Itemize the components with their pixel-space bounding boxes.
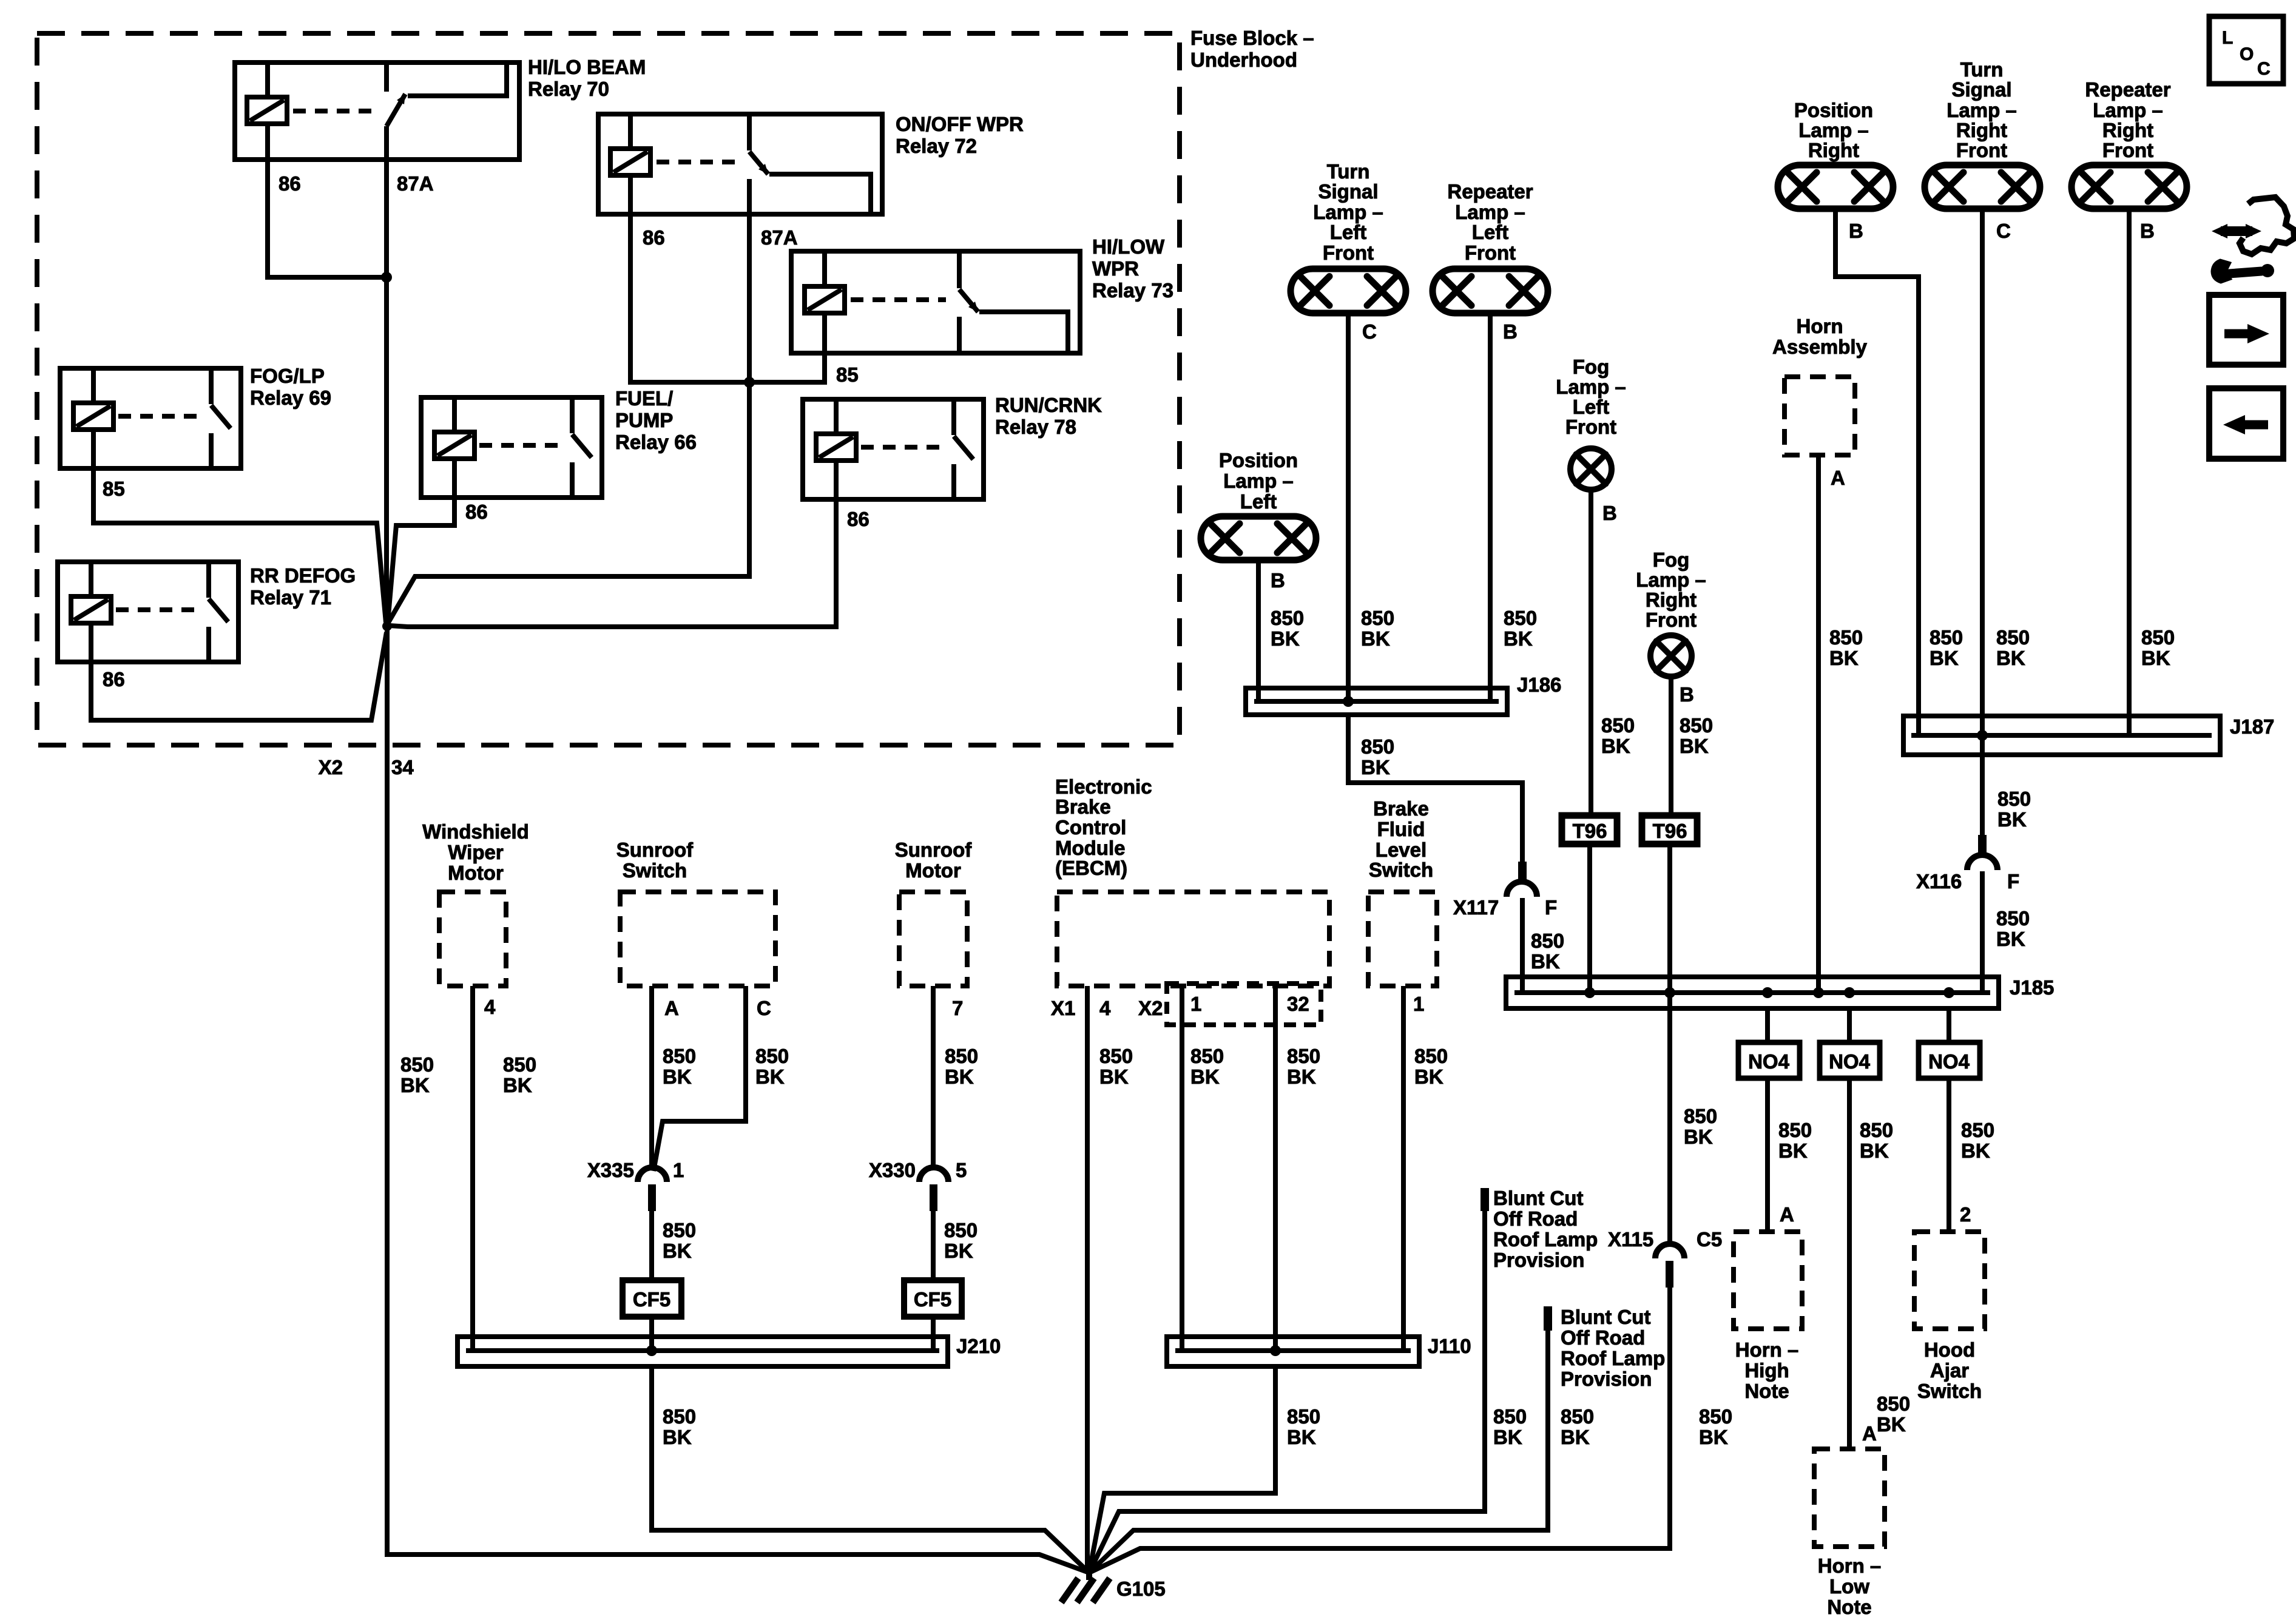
lamp symbol - turn signal lamp left front (1291, 269, 1406, 313)
X117 label (1453, 896, 1499, 919)
connector X117 (1507, 862, 1537, 897)
svg-text:850: 850 (663, 1219, 696, 1241)
svg-text:850: 850 (503, 1053, 536, 1076)
connector X335 (638, 1167, 667, 1211)
svg-text:850: 850 (400, 1053, 434, 1076)
svg-text:850: 850 (1190, 1045, 1224, 1067)
wire R69 pin85 right to X-splice (93, 468, 386, 623)
wire turn signal left C to J186 (1346, 313, 1351, 701)
left arrow navigation box (2209, 388, 2283, 459)
svg-text:Front: Front (1646, 609, 1697, 631)
svg-text:F: F (2007, 870, 2019, 893)
R70 pin 86 label (279, 172, 301, 195)
svg-text:850: 850 (1287, 1405, 1320, 1428)
svg-text:1: 1 (673, 1159, 684, 1181)
wire label 850 BK NO4 middle (1860, 1119, 1893, 1162)
R66 pin 86 label (465, 501, 488, 523)
wire label 850 BK position lamp right (1930, 626, 1963, 669)
right arrow navigation box (2209, 295, 2283, 365)
svg-text:Position: Position (1794, 99, 1873, 121)
wire label 850 BK blunt cut upper (1493, 1405, 1527, 1448)
svg-text:Lamp –: Lamp – (1455, 201, 1525, 223)
svg-text:BK: BK (1997, 808, 2027, 831)
svg-text:A: A (1780, 1203, 1794, 1226)
pin C label turn signal right (1996, 220, 2011, 242)
svg-text:Horn –: Horn – (1818, 1555, 1882, 1577)
wire position lamp right B to J187 (1835, 209, 1919, 735)
svg-text:Relay 72: Relay 72 (896, 135, 977, 157)
svg-text:BK: BK (400, 1074, 430, 1096)
svg-text:BK: BK (1361, 756, 1390, 778)
sunroof switch label (616, 839, 694, 882)
svg-text:Relay 78: Relay 78 (995, 416, 1076, 438)
svg-text:High: High (1744, 1359, 1789, 1382)
svg-text:BK: BK (1531, 950, 1560, 973)
svg-text:BK: BK (1561, 1426, 1590, 1448)
svg-text:Provision: Provision (1561, 1368, 1652, 1390)
svg-text:C: C (757, 997, 771, 1019)
pin A label horn low note (1862, 1422, 1877, 1445)
wire label 850 BK sunroof motor (945, 1045, 978, 1088)
R69 pin 85 label (103, 478, 125, 500)
wire label 850 BK EBCM pin4 (1099, 1045, 1133, 1088)
wire NO4 left to horn high note (1765, 1078, 1770, 1232)
svg-text:BK: BK (1996, 647, 2025, 669)
relay R71 label (250, 564, 356, 609)
horn assembly label (1772, 315, 1868, 358)
svg-text:850: 850 (1414, 1045, 1448, 1067)
svg-text:BK: BK (1287, 1065, 1316, 1088)
wire label 850 BK X117 to J185 (1531, 930, 1564, 973)
pin 7 label sunroof motor (952, 997, 963, 1019)
wire fog right B to T96 (1669, 677, 1673, 815)
lamp symbol - position lamp left (1201, 516, 1316, 560)
svg-text:Left: Left (1330, 221, 1367, 243)
wire blunt cut upper to G105 (1089, 1211, 1485, 1573)
brake fluid level switch dashed box (1368, 892, 1437, 986)
EBCM label (1055, 775, 1152, 879)
pin A label sunroof switch (664, 997, 679, 1019)
lamp symbol - position lamp right (1778, 165, 1893, 209)
svg-text:Off Road: Off Road (1493, 1207, 1578, 1230)
blunt cut stub upper (1481, 1188, 1489, 1211)
svg-text:5: 5 (956, 1159, 967, 1181)
wire label 850 BK turn signal left (1361, 607, 1394, 650)
wire R70 pin87A bus down (384, 160, 389, 626)
svg-text:Lamp –: Lamp – (1223, 470, 1294, 492)
svg-text:850: 850 (1287, 1045, 1320, 1067)
svg-text:BK: BK (944, 1240, 973, 1262)
wire label 850 BK X115 (1699, 1405, 1732, 1448)
wire label 850 BK wiper motor (503, 1053, 536, 1096)
svg-text:850: 850 (1996, 626, 2030, 649)
svg-text:Lamp –: Lamp – (2093, 99, 2163, 121)
svg-text:Switch: Switch (1369, 859, 1433, 881)
horn high note dashed box (1734, 1232, 1802, 1329)
pin B label position lamp right (1849, 220, 1863, 242)
node junction R72 87A (744, 377, 755, 388)
svg-text:T96: T96 (1653, 820, 1687, 842)
X116 pin F label (2007, 870, 2019, 893)
svg-text:850: 850 (1493, 1405, 1527, 1428)
wire label 850 BK below J110 (1287, 1405, 1320, 1448)
svg-text:J110: J110 (1428, 1335, 1471, 1357)
svg-text:B: B (1849, 220, 1863, 242)
svg-text:34: 34 (391, 756, 414, 778)
connector X330 (919, 1167, 948, 1211)
svg-text:1: 1 (1413, 993, 1424, 1015)
pin 4 label wiper motor (484, 996, 496, 1018)
svg-text:4: 4 (1099, 997, 1111, 1019)
svg-text:850: 850 (755, 1045, 789, 1067)
fuse NO4 right (1919, 1042, 1980, 1078)
svg-text:2: 2 (1960, 1203, 1971, 1226)
svg-text:BK: BK (1190, 1065, 1220, 1088)
svg-text:850: 850 (2141, 626, 2175, 649)
relay R66 FUEL/PUMP box and contacts (421, 397, 602, 498)
wire label 850 BK repeater right (2141, 626, 2175, 669)
wire blunt cut lower to G105 (1089, 1331, 1548, 1573)
svg-text:Left: Left (1472, 221, 1509, 243)
wire J185 to NO4 right (1947, 1008, 1951, 1042)
windshield wiper motor label (422, 820, 529, 884)
svg-text:Lamp –: Lamp – (1798, 119, 1869, 141)
lamp symbol - fog lamp left front (1570, 448, 1612, 490)
wire X330 to CF5 (931, 1211, 936, 1280)
wire label 850 BK below X330 (944, 1219, 977, 1262)
pin X2 label EBCM (1138, 997, 1163, 1019)
svg-text:850: 850 (1684, 1105, 1717, 1127)
svg-text:Relay 69: Relay 69 (250, 387, 331, 409)
svg-text:Left: Left (1573, 396, 1610, 418)
svg-text:FUEL/: FUEL/ (615, 387, 673, 410)
splice pack J210 (458, 1337, 948, 1366)
svg-text:87A: 87A (397, 172, 434, 195)
connector X2 pin 34 labels (319, 756, 414, 778)
wire R72 pin86 down to junction row (630, 214, 749, 382)
svg-text:Ajar: Ajar (1930, 1359, 1969, 1382)
svg-text:Right: Right (1808, 139, 1859, 161)
horn low note label (1818, 1555, 1882, 1617)
svg-text:Level: Level (1376, 839, 1427, 861)
svg-text:Underhood: Underhood (1190, 49, 1297, 71)
pin 32 label EBCM (1287, 993, 1309, 1015)
svg-text:X335: X335 (587, 1159, 634, 1181)
sunroof motor label (895, 839, 972, 882)
svg-text:Switch: Switch (1917, 1380, 1982, 1402)
svg-text:X116: X116 (1916, 870, 1962, 893)
svg-text:Control: Control (1055, 816, 1126, 839)
pin C label turn signal left (1362, 320, 1377, 343)
turn signal lamp right front label (1947, 58, 2017, 161)
svg-text:J210: J210 (956, 1335, 1001, 1357)
wire label 850 BK horn low (1877, 1393, 1910, 1436)
svg-text:Switch: Switch (623, 859, 687, 882)
svg-text:Brake: Brake (1373, 797, 1429, 820)
svg-text:Windshield: Windshield (422, 820, 529, 843)
wire fog left B to T96 (1589, 490, 1593, 815)
blunt cut off road roof lamp provision label upper (1493, 1187, 1598, 1271)
svg-text:Front: Front (1323, 241, 1374, 264)
svg-text:4: 4 (484, 996, 496, 1018)
svg-text:Note: Note (1744, 1380, 1789, 1402)
svg-text:BK: BK (663, 1065, 692, 1088)
adjust icon hand with wrench (2212, 197, 2294, 283)
wire label 850 BK turn signal right (1996, 626, 2030, 669)
relay R71 RR DEFOG box and contacts (58, 562, 238, 662)
svg-text:86: 86 (643, 226, 665, 249)
svg-text:F: F (1545, 896, 1557, 919)
svg-text:Left: Left (1240, 490, 1277, 513)
svg-text:Right: Right (1646, 589, 1697, 611)
svg-text:Hood: Hood (1924, 1338, 1975, 1361)
svg-text:(EBCM): (EBCM) (1055, 857, 1127, 879)
pin 1 label EBCM (1190, 993, 1201, 1015)
wire NO4 right to hood ajar switch (1947, 1078, 1951, 1232)
svg-text:850: 850 (1361, 735, 1394, 758)
svg-text:BK: BK (663, 1426, 692, 1448)
svg-text:BK: BK (1961, 1139, 1990, 1162)
svg-text:Position: Position (1219, 449, 1298, 471)
wire repeater left B to J186 (1488, 313, 1493, 701)
svg-text:Repeater: Repeater (1447, 180, 1533, 203)
wire label 850 BK repeater left (1504, 607, 1537, 650)
svg-text:Relay 73: Relay 73 (1092, 279, 1173, 302)
X117 pin F label (1545, 896, 1557, 919)
svg-text:BK: BK (1877, 1413, 1906, 1436)
svg-text:850: 850 (1271, 607, 1304, 629)
svg-text:BK: BK (1680, 735, 1709, 757)
svg-text:850: 850 (1531, 930, 1564, 952)
svg-text:BK: BK (1684, 1126, 1713, 1148)
svg-text:X2: X2 (1138, 997, 1163, 1019)
svg-text:Sunroof: Sunroof (616, 839, 694, 861)
svg-text:HI/LO BEAM: HI/LO BEAM (528, 56, 646, 78)
wire label 850 BK below J186 (1361, 735, 1394, 778)
wire T96 left to J185 (1587, 844, 1592, 993)
svg-text:BK: BK (1099, 1065, 1129, 1088)
R72 pin 87A label (761, 226, 798, 249)
J210 label (956, 1335, 1001, 1357)
svg-text:BK: BK (503, 1074, 532, 1096)
wire X117 to J185 (1520, 898, 1525, 993)
X330 pin 5 label (956, 1159, 967, 1181)
svg-text:NO4: NO4 (1748, 1050, 1790, 1073)
svg-text:850: 850 (1877, 1393, 1910, 1415)
lamp symbol - repeater lamp left front (1433, 269, 1548, 313)
svg-text:850: 850 (1699, 1405, 1732, 1428)
wire label 850 BK fog left (1601, 714, 1635, 757)
wire label 850 BK T96 right below J185 (1684, 1105, 1717, 1148)
svg-text:G105: G105 (1116, 1578, 1166, 1600)
svg-text:Front: Front (1465, 241, 1516, 264)
ground G105 symbol (1061, 1570, 1110, 1602)
EBCM X1/X2 sub dashed box (1167, 984, 1321, 1025)
svg-text:BK: BK (1287, 1426, 1316, 1448)
EBCM dashed box (1057, 892, 1329, 986)
X115 pin C5 label (1697, 1228, 1722, 1251)
position lamp right label (1794, 99, 1873, 161)
relay R70 HI/LO BEAM box and contacts (235, 62, 519, 160)
svg-text:850: 850 (1680, 714, 1713, 737)
relay R72 ON/OFF WPR box and contacts (598, 114, 882, 214)
svg-text:B: B (2140, 220, 2155, 242)
svg-text:A: A (664, 997, 679, 1019)
svg-text:C5: C5 (1697, 1228, 1722, 1251)
svg-text:X1: X1 (1051, 997, 1075, 1019)
sunroof switch dashed box (620, 892, 775, 986)
svg-text:850: 850 (1860, 1119, 1893, 1141)
wire J185 to NO4 middle (1847, 1008, 1852, 1042)
svg-text:850: 850 (1361, 607, 1394, 629)
fuse T96 right (1642, 815, 1697, 844)
svg-text:BK: BK (1829, 647, 1859, 669)
svg-text:BK: BK (2141, 647, 2170, 669)
relay R72 label (896, 113, 1024, 157)
svg-text:85: 85 (103, 478, 125, 500)
svg-text:850: 850 (1997, 788, 2031, 810)
svg-text:850: 850 (1504, 607, 1537, 629)
svg-text:C: C (1996, 220, 2011, 242)
wire R78 pin86 left to X-splice (389, 499, 836, 627)
svg-text:BK: BK (1930, 647, 1959, 669)
wire label 850 BK fog right (1680, 714, 1713, 757)
relay R78 label (995, 394, 1102, 438)
svg-text:Front: Front (2102, 139, 2153, 161)
wire EBCM pin32 to J110 (1273, 986, 1278, 1351)
svg-text:850: 850 (1930, 626, 1963, 649)
fuse CF5 left (623, 1280, 681, 1317)
wire CF5 left to J210 (649, 1317, 654, 1351)
X335 label (587, 1159, 634, 1181)
G105 label (1116, 1578, 1166, 1600)
svg-text:B: B (1271, 569, 1285, 592)
J110 label (1428, 1335, 1471, 1357)
wire label 850 BK hood ajar (1961, 1119, 1994, 1162)
pin 4 label EBCM (1099, 997, 1111, 1019)
wire J110 output to G105 (1089, 1366, 1275, 1573)
svg-text:Repeater: Repeater (2085, 78, 2170, 101)
svg-text:J185: J185 (2010, 976, 2054, 999)
X330 label (869, 1159, 916, 1181)
svg-text:Fluid: Fluid (1377, 818, 1425, 840)
horn low note dashed box (1814, 1449, 1885, 1547)
fuse CF5 right (904, 1280, 962, 1317)
svg-text:Signal: Signal (1318, 180, 1378, 203)
lamp symbol - repeater lamp right front (2071, 165, 2187, 209)
fuse NO4 middle (1820, 1042, 1880, 1078)
svg-text:J187: J187 (2230, 715, 2274, 738)
wire label 850 BK horn assembly (1829, 626, 1863, 669)
svg-text:850: 850 (1601, 714, 1635, 737)
svg-text:Relay 71: Relay 71 (250, 586, 331, 609)
connector X115 (1655, 1244, 1684, 1288)
J187 label (2230, 715, 2274, 738)
R72 pin 86 label (643, 226, 665, 249)
svg-text:Wiper: Wiper (448, 841, 504, 863)
turn signal lamp left front label (1313, 160, 1383, 264)
wire CF5 right to J210 (931, 1317, 936, 1351)
svg-text:B: B (1503, 320, 1518, 343)
X115 label (1608, 1228, 1653, 1251)
connector X116 (1967, 835, 1997, 870)
R78 pin 86 label (847, 508, 869, 530)
repeater lamp right front label (2085, 78, 2170, 161)
wire R70 pin86 down-right to bus (268, 160, 387, 277)
svg-text:BK: BK (1271, 627, 1300, 650)
X116 label (1916, 870, 1962, 893)
blunt cut off road roof lamp provision label lower (1561, 1306, 1665, 1390)
pin B label repeater right (2140, 220, 2155, 242)
svg-text:86: 86 (279, 172, 301, 195)
pin B label position lamp left (1271, 569, 1285, 592)
wire label 850 BK blunt cut lower (1561, 1405, 1594, 1448)
pin A label horn assembly (1831, 467, 1845, 489)
svg-text:850: 850 (1829, 626, 1863, 649)
svg-text:Lamp –: Lamp – (1947, 99, 2017, 121)
svg-text:BK: BK (1699, 1426, 1728, 1448)
wire label 850 BK brake fluid (1414, 1045, 1448, 1088)
svg-text:HI/LOW: HI/LOW (1092, 235, 1165, 258)
svg-text:BK: BK (945, 1065, 974, 1088)
svg-text:Fuse Block –: Fuse Block – (1190, 27, 1314, 49)
wire sunroof motor pin7 to X330 (931, 986, 936, 1167)
wire NO4 middle to horn low note (1847, 1078, 1852, 1449)
svg-text:BK: BK (1778, 1139, 1808, 1162)
svg-text:L: L (2222, 28, 2233, 48)
svg-text:Roof Lamp: Roof Lamp (1493, 1228, 1598, 1251)
svg-text:Fog: Fog (1653, 549, 1689, 571)
svg-text:Roof Lamp: Roof Lamp (1561, 1347, 1665, 1369)
svg-text:Right: Right (2102, 119, 2153, 141)
svg-text:86: 86 (847, 508, 869, 530)
svg-text:CF5: CF5 (633, 1288, 670, 1311)
svg-text:Fog: Fog (1573, 356, 1609, 378)
svg-text:A: A (1831, 467, 1845, 489)
svg-text:Motor: Motor (448, 862, 504, 884)
svg-text:FOG/LP: FOG/LP (250, 365, 325, 387)
wire R73 pin85 down-left to junction row (749, 353, 825, 382)
svg-text:850: 850 (1961, 1119, 1994, 1141)
wire label 850 BK EBCM pin1 (1190, 1045, 1224, 1088)
svg-text:850: 850 (1099, 1045, 1133, 1067)
svg-text:Sunroof: Sunroof (895, 839, 972, 861)
splice pack J185 (1506, 977, 1999, 1008)
wire X335 to CF5 (649, 1211, 654, 1280)
svg-text:Blunt Cut: Blunt Cut (1561, 1306, 1650, 1328)
pin X1 label EBCM (1051, 997, 1075, 1019)
splice pack J186 (1246, 688, 1507, 715)
svg-text:BK: BK (1996, 928, 2025, 950)
wire sunroof switch C joins A (653, 986, 746, 1171)
wire X115 to G105 (1089, 1288, 1670, 1573)
fog lamp left front label (1556, 356, 1626, 438)
R73 pin 85 label (836, 363, 859, 386)
svg-text:Front: Front (1565, 416, 1616, 438)
windshield wiper motor dashed box (439, 892, 506, 986)
svg-text:Low: Low (1829, 1575, 1869, 1598)
svg-text:RR DEFOG: RR DEFOG (250, 564, 356, 587)
wire label 850 BK position lamp left (1271, 607, 1304, 650)
blunt cut stub lower (1544, 1306, 1552, 1331)
svg-text:BK: BK (755, 1065, 785, 1088)
position lamp left label (1219, 449, 1298, 513)
relay R69 label (250, 365, 331, 409)
svg-text:850: 850 (1778, 1119, 1812, 1141)
wire label 850 BK sunroof C (755, 1045, 789, 1088)
wire EBCM pin1 to J110 (1180, 986, 1184, 1351)
splice pack J187 (1903, 716, 2220, 755)
